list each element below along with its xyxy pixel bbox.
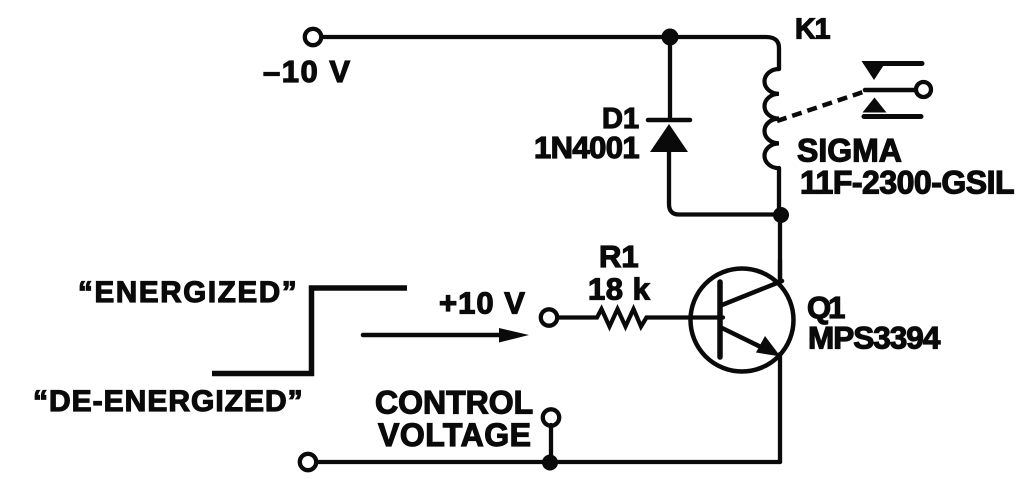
transistor Q1: [691, 269, 794, 372]
svg-text:VOLTAGE: VOLTAGE: [378, 417, 531, 453]
wire: Q1 emitter down to bottom rail: [778, 354, 782, 462]
wire: D1 anode down and right to lower junction: [669, 152, 778, 215]
svg-text:SIGMA: SIGMA: [797, 133, 902, 169]
svg-text:18 k: 18 k: [588, 272, 651, 307]
wire: junction down to D1 cathode: [668, 37, 672, 118]
diode D1: [648, 120, 690, 152]
wire: Q1 collector up to junction B: [778, 260, 782, 281]
svg-text:–10 V: –10 V: [263, 54, 352, 89]
wire: bottom rail: [316, 460, 780, 464]
relay contact: movable arm with terminal: [865, 82, 931, 97]
svg-text:R1: R1: [599, 239, 639, 274]
node A: junction of -10V rail and D1: [662, 29, 679, 46]
resistor R1: [557, 309, 723, 327]
relay contact: lower fixed contact: [863, 98, 922, 117]
relay contact: upper fixed contact: [862, 61, 923, 80]
terminal: -10V input: [305, 29, 321, 45]
svg-text:CONTROL: CONTROL: [375, 385, 533, 421]
wire: control voltage terminal to bottom rail: [549, 425, 553, 462]
svg-text:1N4001: 1N4001: [534, 130, 639, 165]
arrow: control signal direction: [363, 328, 529, 343]
node B: junction of D1, relay coil bottom and Q1 collector: [773, 207, 789, 223]
wire: relay actuation dashed link: [777, 91, 866, 121]
wire: energized/de-energized step waveform: [212, 288, 407, 374]
terminal: +10V input to R1: [541, 309, 557, 325]
terminal: control voltage input: [543, 409, 559, 425]
wire: -10V rail from terminal to relay branch: [321, 37, 779, 69]
wire: coil bottom to junction B: [777, 168, 781, 215]
svg-text:“DE-ENERGIZED”: “DE-ENERGIZED”: [33, 385, 304, 418]
wire: junction B down to Q1 collector: [778, 215, 782, 282]
svg-text:“ENERGIZED”: “ENERGIZED”: [78, 276, 298, 309]
svg-text:MPS3394: MPS3394: [808, 320, 941, 356]
svg-text:+10 V: +10 V: [439, 286, 526, 321]
relay coil K1: [765, 69, 780, 168]
terminal: bottom rail left: [300, 454, 316, 470]
node C: junction of control voltage and bottom rail: [542, 455, 558, 471]
svg-text:11F-2300-GSIL: 11F-2300-GSIL: [800, 165, 1014, 201]
svg-text:K1: K1: [795, 14, 831, 46]
